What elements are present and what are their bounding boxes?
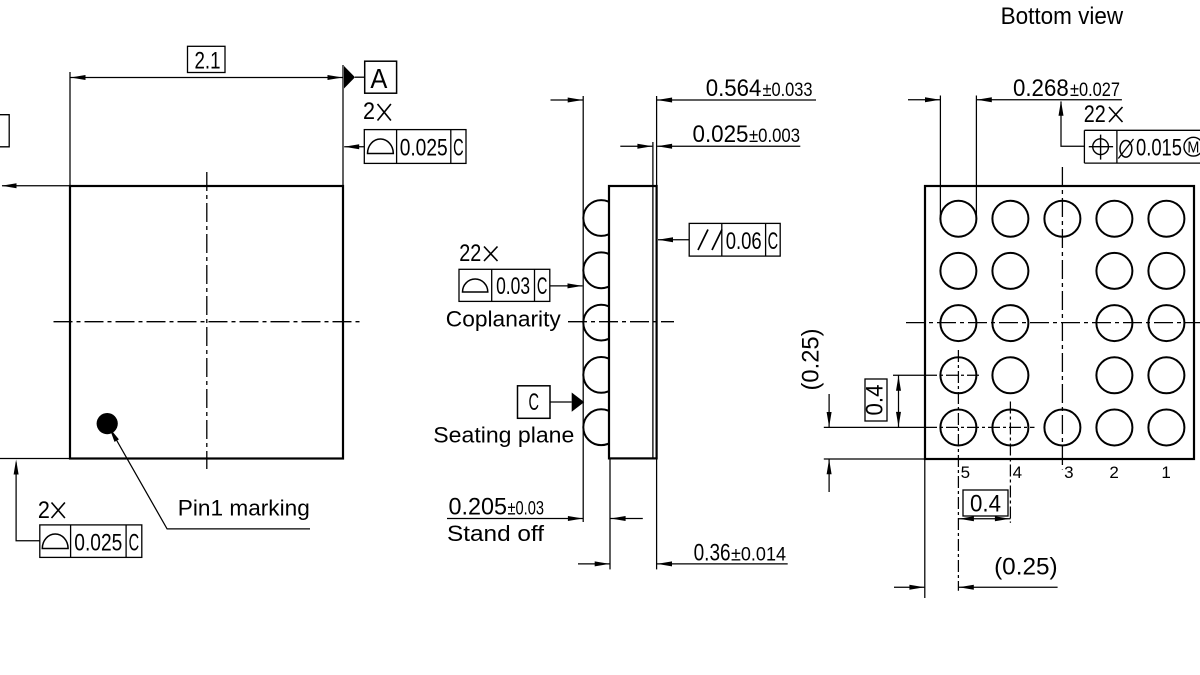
package outline (bottom view) xyxy=(925,186,1194,459)
0.4 bottom dimension line xyxy=(958,518,1010,520)
svg-text:22: 22 xyxy=(1084,101,1106,128)
feature control frame (bottom left): profile 0.025 C xyxy=(40,525,142,558)
svg-text:5: 5 xyxy=(961,463,970,482)
M modifier circle xyxy=(1184,137,1200,156)
svg-text:Bottom view: Bottom view xyxy=(1001,3,1124,30)
svg-text:2.1: 2.1 xyxy=(195,48,221,75)
leader (bottom-left frame) xyxy=(16,463,40,541)
svg-text:C: C xyxy=(528,389,539,416)
svg-text:1: 1 xyxy=(1161,463,1170,482)
svg-text:C: C xyxy=(537,273,548,300)
svg-text:C: C xyxy=(768,228,779,255)
svg-text:±0.03: ±0.03 xyxy=(508,499,545,520)
extension lines 0.564 / 0.025 xyxy=(656,96,658,186)
parallelism feature control frame // 0.06 C xyxy=(689,223,780,256)
ball grid xyxy=(940,201,1184,446)
svg-text:C: C xyxy=(453,135,464,162)
parallelism symbol xyxy=(698,230,708,251)
dimension 0.025 xyxy=(620,145,652,147)
extension line left (2.1 dim) xyxy=(69,72,71,186)
side view centerline xyxy=(568,321,674,323)
svg-text:0.4: 0.4 xyxy=(862,385,889,416)
svg-text:3: 3 xyxy=(1064,463,1073,482)
svg-text:22: 22 xyxy=(459,240,481,267)
svg-text:Stand off: Stand off xyxy=(447,521,545,546)
svg-text:±0.033: ±0.033 xyxy=(763,80,813,101)
package outline (top view) xyxy=(70,186,343,459)
svg-text:0.06: 0.06 xyxy=(726,228,762,255)
svg-text:0.564: 0.564 xyxy=(706,75,762,102)
row 5 center line xyxy=(824,426,925,428)
datum C box xyxy=(518,386,551,419)
feature control frame (top right): profile 0.025 C xyxy=(364,130,466,164)
svg-text:0.015: 0.015 xyxy=(1136,135,1182,162)
0.4 left dimension line xyxy=(898,375,900,427)
svg-text:Seating plane: Seating plane xyxy=(433,423,574,448)
coplanarity feature control frame 0.03 C xyxy=(459,269,550,301)
svg-text:(0.25): (0.25) xyxy=(994,554,1058,581)
svg-text:0.025: 0.025 xyxy=(400,135,448,162)
inner layer line xyxy=(652,187,654,458)
2.1 basic dimension box xyxy=(188,46,226,72)
leader from coplanarity frame xyxy=(550,285,583,287)
datum A box xyxy=(365,61,397,93)
svg-text:0.025: 0.025 xyxy=(693,121,749,148)
leader arrow from frame to extension line xyxy=(344,146,364,148)
datum C triangle xyxy=(572,393,585,412)
svg-text:±0.003: ±0.003 xyxy=(749,126,800,147)
row 4 center line xyxy=(893,374,925,376)
svg-text:(0.25): (0.25) xyxy=(798,329,825,391)
package body (side view) xyxy=(609,186,657,458)
solder balls (side view) xyxy=(583,200,619,236)
dimension 0.36 xyxy=(578,563,610,565)
vertical centerline xyxy=(206,172,208,469)
svg-text:M: M xyxy=(1187,140,1199,157)
cut-off frame at left edge xyxy=(0,115,9,147)
profile symbol xyxy=(368,139,394,153)
col 4 center line xyxy=(1009,402,1011,523)
vertical centerline (col 3) xyxy=(1061,167,1063,470)
svg-text:0.268: 0.268 xyxy=(1013,75,1069,102)
left edge extension line xyxy=(924,459,926,598)
leader to left edge (cut off) xyxy=(2,185,70,187)
svg-text:0.205: 0.205 xyxy=(449,494,508,521)
svg-text:2: 2 xyxy=(38,497,50,524)
svg-text:0.36: 0.36 xyxy=(694,540,731,567)
horizontal centerline (row 3) xyxy=(906,322,1200,324)
Pin1 marking leader xyxy=(111,430,311,529)
0.4 left box xyxy=(865,379,887,421)
profile symbol xyxy=(463,279,488,292)
datum A triangle xyxy=(344,66,355,89)
Pin1 marking dot xyxy=(97,413,118,434)
col 5 center line xyxy=(957,350,959,591)
svg-text:0.03: 0.03 xyxy=(496,273,530,300)
bottom edge extension line xyxy=(824,458,925,460)
leader from parallelism frame xyxy=(658,239,689,241)
(0.25) bottom dimension line xyxy=(894,586,924,588)
svg-text:0.025: 0.025 xyxy=(74,530,122,557)
dimension 0.564 xyxy=(551,99,584,101)
svg-text:Coplanarity: Coplanarity xyxy=(446,307,561,332)
0.4 bottom box xyxy=(963,490,1008,516)
dimension 0.268 xyxy=(908,99,940,101)
svg-text:±0.027: ±0.027 xyxy=(1070,80,1120,101)
position feature control frame (cut off at right) xyxy=(1084,129,1200,131)
position symbol xyxy=(1093,139,1109,155)
svg-text:Pin1 marking: Pin1 marking xyxy=(178,496,310,521)
extension line right (2.1 dim / datum A) xyxy=(342,65,344,186)
svg-text:±0.014: ±0.014 xyxy=(731,545,786,566)
svg-text:0.4: 0.4 xyxy=(970,491,1001,518)
bottom edge extension line to left xyxy=(0,458,70,460)
svg-text:4: 4 xyxy=(1013,463,1022,482)
dimension line 2.1 xyxy=(70,77,343,79)
extension lines below side view xyxy=(609,458,611,569)
0.268 extension lines xyxy=(939,96,941,220)
dimension 0.205 stand off xyxy=(447,518,583,520)
svg-text:2: 2 xyxy=(363,98,375,125)
ball extent line (seating plane) xyxy=(582,96,584,522)
(0.25) left dimension line xyxy=(828,394,830,427)
leader from 0.268 dim to position frame xyxy=(1061,102,1084,147)
svg-text:2: 2 xyxy=(1109,463,1118,482)
profile symbol xyxy=(42,534,68,548)
svg-text:C: C xyxy=(129,530,140,557)
horizontal centerline xyxy=(54,321,361,323)
svg-text:A: A xyxy=(370,63,387,94)
